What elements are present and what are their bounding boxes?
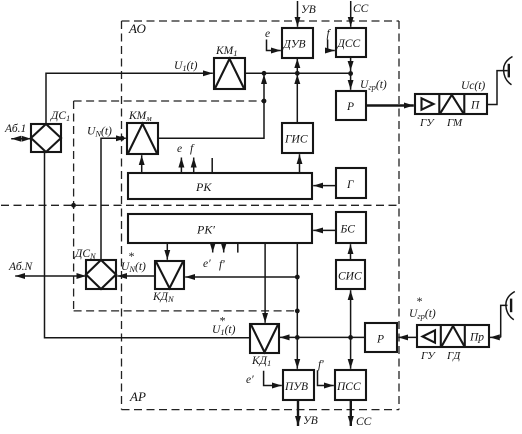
svg-text:АО: АО [128, 21, 146, 36]
svg-text:П: П [470, 100, 480, 112]
svg-text:Аб.N: Аб.N [8, 261, 34, 273]
label KMm [128, 110, 152, 123]
block KM1 (modulator 1) [214, 58, 245, 89]
svg-text:ДСС: ДСС [337, 38, 361, 50]
wire SIS up to BS [350, 244, 352, 260]
wire SS input top [350, 1, 352, 27]
label Ugr(t) [360, 79, 387, 92]
wire stub down from RK' plain [237, 243, 239, 253]
label f' (RK') [219, 259, 225, 271]
label UV bottom [303, 415, 318, 427]
junction dot rx line PSS [348, 335, 353, 340]
svg-text:f: f [190, 143, 195, 155]
wire f stub up from RK [193, 158, 195, 174]
svg-text:Г: Г [346, 179, 354, 191]
label f [327, 28, 332, 40]
block PUV [283, 370, 314, 400]
svg-text:КД1: КД1 [251, 355, 271, 368]
svg-text:UN(t): UN(t) [87, 126, 112, 139]
wire f' hook into PSS [318, 370, 334, 385]
svg-text:Р: Р [346, 101, 354, 113]
wire PSS output SS [350, 400, 352, 426]
wire RK' down to KDN [166, 243, 168, 260]
wire GU(rx) to R(rx) [398, 336, 417, 338]
dashed region AO top edge [122, 20, 400, 22]
svg-text:КДN: КДN [152, 291, 175, 304]
block R (receive group radio) [365, 323, 397, 352]
svg-text:Uгр(t): Uгр(t) [409, 308, 436, 321]
block G (generator) [336, 168, 366, 198]
svg-text:f: f [327, 28, 332, 40]
block DSN (subscriber set N) [86, 260, 116, 289]
svg-text:ДСN: ДСN [74, 248, 97, 261]
block KMm (modulator M) [127, 123, 158, 154]
receive antenna [490, 292, 515, 338]
label SS bottom [356, 416, 372, 428]
block R (transmit group radio) [336, 91, 366, 120]
wire UV input top [297, 1, 299, 27]
dashed inner region boundary [74, 101, 297, 311]
label GU (tx) [419, 117, 435, 129]
svg-text:f′: f′ [318, 359, 324, 371]
label Ab.1 [4, 123, 26, 135]
label e' (RK') [203, 258, 211, 270]
transmit antenna [487, 57, 513, 105]
svg-text:РК′: РК′ [196, 223, 215, 237]
wire f' stub down from RK' [223, 243, 225, 253]
svg-text:*: * [219, 314, 225, 328]
svg-text:Uс(t): Uс(t) [461, 80, 485, 92]
wire junction up into SIS bottom [350, 290, 352, 337]
label UV top [301, 4, 316, 16]
svg-text:Пр: Пр [469, 332, 484, 344]
svg-text:АР: АР [129, 389, 146, 404]
label DS1 [50, 110, 70, 123]
junction dot rx line PUV [295, 335, 300, 340]
label DSN [74, 248, 97, 261]
wire RK' down to KD1 [264, 243, 266, 323]
svg-text:БС: БС [340, 224, 356, 236]
block RK' [128, 214, 312, 243]
label Uc(t) [461, 80, 485, 92]
svg-text:ПСС: ПСС [336, 381, 361, 393]
dashed separator AO/AR [1, 204, 399, 206]
wire U1(t) from DS1 to KM1 [46, 73, 213, 124]
label SS top [353, 3, 369, 15]
wire KDN feed from junction [185, 276, 297, 278]
svg-text:ДС1: ДС1 [50, 110, 70, 123]
dashed region right edge (AO/AR) [398, 21, 400, 410]
wire e hook into DUV [267, 40, 281, 51]
wire e stub up from RK [180, 158, 182, 174]
wire stub up from RK plain [211, 158, 213, 173]
wire PUV output UV [297, 400, 299, 426]
svg-text:КМ1: КМ1 [215, 45, 237, 58]
svg-text:УВ: УВ [303, 415, 318, 427]
label KDN [152, 291, 175, 304]
wire DSS down to R [348, 58, 354, 90]
svg-text:ГУ: ГУ [419, 117, 435, 129]
svg-text:*: * [416, 294, 422, 308]
svg-text:КМм: КМм [128, 110, 152, 123]
label f' (PSS) [318, 359, 324, 371]
wire R output to GU [366, 104, 414, 106]
label KM1 [215, 45, 237, 58]
label U1(t) [174, 60, 198, 73]
svg-text:ПУВ: ПУВ [284, 381, 308, 393]
junction dot bus-KMm [262, 71, 267, 76]
label e (RK) [177, 143, 182, 155]
wire BS to RK' [313, 229, 336, 231]
wire f hook into DSS [328, 40, 335, 51]
wire group bus from KM1 to DSS line [245, 72, 351, 74]
svg-text:ГИС: ГИС [284, 134, 308, 146]
junction dot bus-GIS [295, 71, 300, 76]
block SIS [336, 260, 365, 289]
junction dot inner boundary bottom [295, 309, 300, 314]
label f (RK) [190, 143, 195, 155]
wire RK up to KMm [141, 155, 143, 173]
wire UN(t) from DSN up into KMm [101, 138, 126, 260]
svg-text:е′: е′ [203, 258, 211, 270]
label AO [128, 21, 146, 36]
block DUV [282, 28, 313, 58]
label AR [129, 389, 146, 404]
block DS1 (subscriber set 1) [31, 124, 61, 152]
block KD1 (demodulator 1) [250, 324, 279, 353]
label KD1 [251, 355, 271, 368]
junction dot bus-DSS [348, 71, 353, 76]
label UN*(t) [121, 249, 146, 274]
label U1*(t) [212, 314, 236, 338]
wire GIS top to DUV bottom [294, 59, 300, 124]
svg-text:Uгр(t): Uгр(t) [360, 79, 387, 92]
svg-text:е: е [265, 28, 270, 40]
label Ab.N [8, 261, 34, 273]
svg-text:U1(t): U1(t) [174, 60, 198, 73]
label e [265, 28, 270, 40]
label GM [446, 117, 463, 129]
block KDN (demodulator N) [155, 261, 184, 289]
label GD [446, 350, 461, 362]
svg-text:ГУ: ГУ [420, 350, 436, 362]
wire RK up to GIS [299, 154, 301, 173]
wire e' stub down from RK' [212, 243, 214, 253]
svg-text:f′: f′ [219, 259, 225, 271]
label Ugr*(t) receive [409, 294, 436, 321]
block RK (distributor of channels) [128, 173, 312, 199]
svg-text:РК: РК [195, 180, 212, 194]
wire G to RK [313, 185, 336, 187]
svg-text:Р: Р [376, 334, 384, 346]
block GU-GD-Pr receiver group [417, 325, 489, 347]
block DSS [336, 28, 366, 57]
svg-text:*: * [128, 249, 134, 263]
wire RK' down to PUV [296, 243, 298, 369]
svg-text:ГД: ГД [446, 350, 461, 362]
block GIS [282, 123, 313, 153]
wire KMm output up to bus [158, 73, 267, 138]
svg-text:ДУВ: ДУВ [283, 39, 306, 51]
dashed region AR bottom edge [122, 409, 400, 411]
svg-text:УВ: УВ [301, 4, 316, 16]
dashed region left edge (AO/AR) [121, 21, 123, 410]
junction dot separator boundary [71, 203, 76, 208]
svg-text:СС: СС [356, 416, 372, 428]
svg-text:СИС: СИС [338, 271, 362, 283]
wire R(rx) to KD1 [280, 336, 365, 338]
block PSS [335, 370, 366, 400]
wire Ab.N line [15, 273, 86, 279]
label e' (PUV) [246, 374, 254, 386]
wire junction down into PSS top [350, 337, 352, 368]
junction dot KDN feed [295, 275, 300, 280]
svg-text:е: е [177, 143, 182, 155]
junction dot inner boundary top [262, 99, 267, 104]
junction dot UN wire boundary [120, 136, 125, 141]
label UN(t) [87, 126, 112, 139]
svg-text:ГМ: ГМ [446, 117, 463, 129]
wire U1*(t) from KD1 to DS1 [45, 153, 251, 338]
block BS [336, 212, 366, 243]
block GU-GM-P transmitter group [415, 94, 487, 114]
svg-text:е′: е′ [246, 374, 254, 386]
wire Ab.1 line [11, 136, 31, 142]
label GU (rx) [420, 350, 436, 362]
wire e' hook into PUV [264, 371, 282, 386]
svg-text:Аб.1: Аб.1 [4, 123, 26, 135]
svg-text:СС: СС [353, 3, 369, 15]
wire UN*(t) KDN to DSN [117, 275, 155, 277]
